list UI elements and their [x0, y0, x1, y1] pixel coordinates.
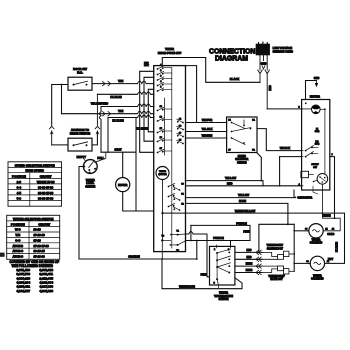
wire advance switch right: [92, 135, 97, 145]
svg-text:TAN: TAN: [118, 79, 123, 83]
timer right riser a: [190, 225, 192, 240]
svg-text:13-18: 13-18: [34, 228, 42, 232]
svg-text:21: 21: [325, 228, 328, 230]
svg-text:4,244,023: 4,244,023: [40, 289, 54, 293]
svg-text:WH: WH: [15, 233, 20, 237]
svg-text:PINK: PINK: [201, 274, 207, 277]
connector right pair: [95, 126, 100, 129]
svg-text:TAN: TAN: [118, 109, 123, 113]
svg-text:COLD: COLD: [327, 233, 334, 236]
timer motor: [156, 167, 169, 180]
svg-text:PINK: PINK: [243, 230, 249, 234]
wire pink: [186, 234, 210, 277]
timer right riser b: [196, 241, 198, 260]
motor box: [302, 100, 330, 191]
svg-text:LT. BLUE: LT. BLUE: [137, 127, 148, 131]
timer trunk wire 3: [148, 89, 153, 132]
svg-text:C-C: C-C: [15, 238, 20, 242]
svg-text:5-6: 5-6: [17, 196, 22, 200]
wire motor bottom: [123, 192, 154, 211]
wire tan 2: [62, 113, 154, 115]
svg-text:BLK: BLK: [144, 65, 149, 67]
motor speed switch: [305, 150, 307, 152]
svg-text:BLUE DOT: BLUE DOT: [270, 278, 283, 281]
svg-text:CAPACITOR: CAPACITOR: [297, 197, 312, 200]
svg-text:POSITION: POSITION: [12, 174, 26, 178]
timer box: [154, 66, 186, 252]
wire wh-brn: [186, 137, 227, 139]
motor start switch circle: [317, 174, 328, 185]
svg-text:W-C: W-C: [15, 228, 21, 232]
wire cold feed riser: [259, 224, 294, 252]
svg-text:CIRCUIT: CIRCUIT: [38, 222, 50, 226]
svg-text:68-69 67-68: 68-69 67-68: [38, 196, 54, 200]
svg-text:30: 30: [306, 261, 309, 263]
svg-text:WHITE-YELLOW: WHITE-YELLOW: [235, 209, 256, 213]
svg-text:GRAY: GRAY: [114, 147, 122, 151]
label CAPACITOR: [295, 197, 297, 199]
wire red t2: [235, 258, 262, 260]
svg-text:32: 32: [181, 204, 184, 206]
line voltage service cord plug: [256, 44, 269, 55]
svg-text:SW: SW: [313, 167, 317, 169]
svg-text:ORANGE DOT: ORANGE DOT: [267, 247, 284, 250]
wire yellow upper: [186, 181, 264, 186]
table speed selector switch: [8, 162, 62, 206]
svg-text:67: 67: [228, 150, 231, 152]
svg-text:FULL: FULL: [97, 156, 104, 160]
svg-text:TIMER: TIMER: [159, 171, 166, 173]
svg-text:ATCH-C: ATCH-C: [13, 249, 24, 253]
svg-text:LT. BLUE: LT. BLUE: [110, 95, 121, 99]
plug ground pin wire GRD: [263, 55, 265, 61]
ground GRD above motor: [306, 81, 317, 100]
svg-text:SPM: SPM: [315, 144, 320, 146]
wire yel-blk: [186, 131, 227, 133]
plug right pin wire red: [266, 55, 268, 70]
svg-text:63: 63: [179, 132, 182, 134]
svg-text:68-69 67-69: 68-69 67-69: [38, 191, 54, 195]
wire red to motor: [267, 108, 301, 110]
svg-text:2: 2: [160, 70, 162, 72]
svg-text:MOTOR: MOTOR: [310, 95, 320, 99]
wire full riser: [100, 107, 102, 153]
svg-text:WHITE: WHITE: [322, 214, 330, 217]
svg-text:DIAGRAM: DIAGRAM: [215, 56, 248, 63]
capacitor wire: [322, 184, 340, 231]
svg-text:21: 21: [327, 261, 330, 263]
wire orange: [79, 258, 197, 260]
timer trunk wire 2: [144, 77, 154, 141]
svg-text:RED: RED: [246, 256, 251, 259]
svg-text:17-16-18: 17-16-18: [34, 233, 46, 237]
svg-text:PURPLE: PURPLE: [236, 221, 247, 225]
svg-text:6A: 6A: [252, 118, 255, 121]
wire red t1: [235, 251, 262, 253]
timer contacts middle: [157, 110, 159, 112]
svg-text:17-18: 17-18: [34, 238, 42, 242]
svg-text:2: 2: [298, 106, 300, 108]
hot water solenoid: [310, 256, 324, 270]
svg-text:GRD: GRD: [314, 77, 320, 80]
svg-text:SWITCH: SWITCH: [237, 161, 247, 164]
svg-text:17-16-17-18: 17-16-17-18: [34, 244, 50, 248]
svg-text:64: 64: [179, 138, 182, 141]
svg-text:WH-PUR: WH-PUR: [202, 119, 212, 122]
svg-text:13-18-15: 13-18-15: [34, 249, 46, 253]
svg-text:2: 2: [89, 172, 90, 174]
wire door switch branch: [61, 85, 63, 114]
svg-text:RED: RED: [227, 181, 233, 185]
svg-text:YELLOW-RED: YELLOW-RED: [91, 102, 109, 106]
svg-text:T0: T0: [162, 236, 165, 238]
svg-text:SPEED SELECTOR SWITCH: SPEED SELECTOR SWITCH: [15, 164, 55, 168]
motor start relay box: [301, 171, 309, 177]
svg-text:C: C: [213, 283, 215, 285]
timer inner bus 1: [171, 68, 173, 248]
svg-text:LT. BLUE: LT. BLUE: [112, 119, 123, 123]
svg-text:SOLENOID: SOLENOID: [311, 278, 324, 281]
timer right outer riser: [186, 66, 197, 123]
svg-text:5A: 5A: [252, 149, 255, 152]
svg-text:WATER SELECTOR SWITCH: WATER SELECTOR SWITCH: [13, 217, 53, 221]
svg-text:SERVICE CORD: SERVICE CORD: [273, 50, 293, 54]
svg-text:CONNECTION: CONNECTION: [209, 48, 255, 55]
wire black from timer top to plug: [162, 58, 205, 66]
svg-text:GRD: GRD: [261, 62, 267, 66]
wire T0 riser: [161, 240, 163, 259]
svg-text:POSITION: POSITION: [11, 222, 25, 226]
svg-text:30: 30: [181, 184, 184, 186]
svg-text:4,214,717: 4,214,717: [17, 289, 31, 293]
wire water level left: [79, 167, 83, 260]
svg-text:ORANGE: ORANGE: [128, 254, 140, 258]
svg-text:ATCH-B: ATCH-B: [13, 244, 24, 248]
water temperature switch box: [210, 246, 235, 285]
svg-text:SOLENOID: SOLENOID: [310, 242, 323, 245]
table water selector switch: [7, 215, 60, 259]
motor inner right bus: [320, 108, 325, 110]
wire hot stub: [294, 262, 310, 264]
wire wh-pur: [186, 122, 227, 124]
wire riser to motor3: [280, 156, 302, 158]
motor protector: [312, 105, 321, 114]
wire yellow capacitor: [186, 197, 295, 199]
timer trunk wire 1: [140, 71, 154, 152]
svg-text:2-3: 2-3: [17, 180, 22, 184]
svg-text:WHITE-BLUE: WHITE-BLUE: [179, 285, 195, 288]
svg-text:BLUE: BLUE: [239, 199, 246, 203]
thermostat blue dot: [262, 265, 278, 267]
svg-text:HIGH SPEED: HIGH SPEED: [25, 169, 44, 173]
svg-text:WH-BK 67-68: WH-BK 67-68: [37, 180, 55, 184]
svg-text:CIRCUIT: CIRCUIT: [40, 174, 52, 178]
wire loop right: [135, 118, 137, 212]
svg-text:SWITCH: SWITCH: [85, 186, 95, 189]
wire lt blue 1: [97, 93, 153, 95]
wire loop top lt blue: [108, 117, 154, 119]
svg-text:BLUE: BLUE: [246, 263, 253, 266]
wire motor right riser: [330, 157, 335, 219]
svg-text:4: 4: [160, 80, 162, 83]
svg-text:START: START: [311, 163, 319, 166]
wire full riser 2: [95, 152, 106, 162]
timer contacts upper: [157, 68, 159, 70]
wire solenoid riser: [293, 224, 295, 271]
svg-text:68-69 67-69: 68-69 67-69: [38, 185, 54, 189]
svg-text:1: 1: [214, 249, 216, 251]
timer inner bus 2: [164, 98, 166, 155]
wire white-blue: [162, 259, 242, 289]
speed selector switch: [227, 117, 257, 153]
svg-text:30: 30: [305, 228, 308, 230]
svg-text:T1: T1: [176, 231, 179, 233]
svg-text:N.O.: N.O.: [77, 71, 83, 75]
svg-text:BLUE: BLUE: [246, 269, 253, 272]
svg-text:64: 64: [228, 118, 231, 121]
svg-text:ATCH-C: ATCH-C: [13, 255, 24, 259]
svg-text:RED: RED: [269, 85, 272, 90]
svg-text:EMPTY: EMPTY: [77, 155, 86, 159]
wire gray: [101, 151, 136, 153]
svg-text:MOTOR: MOTOR: [158, 174, 167, 176]
wire blue: [186, 203, 288, 224]
wire loop left: [107, 118, 109, 153]
svg-text:WH-BRN: WH-BRN: [202, 134, 213, 137]
water temperature switch contacts: [216, 252, 218, 254]
wire door switch left: [52, 85, 68, 126]
wire yellow-red: [101, 106, 154, 108]
motor terminals: [300, 108, 303, 110]
svg-text:21: 21: [332, 228, 335, 230]
svg-text:61: 61: [179, 118, 182, 120]
svg-text:SPM: SPM: [315, 131, 320, 133]
svg-text:YEL-BLK: YEL-BLK: [202, 128, 213, 131]
svg-text:YELLOW: YELLOW: [225, 176, 237, 180]
svg-text:3-4: 3-4: [17, 185, 22, 189]
timer contacts right upper: [182, 122, 184, 124]
hot terminal tick: [333, 262, 336, 264]
wire wh-blk: [257, 129, 302, 151]
motor M1: [122, 152, 124, 177]
wire purple 1: [191, 225, 250, 240]
wire white-yellow: [163, 213, 345, 263]
svg-text:3: 3: [160, 76, 162, 78]
svg-text:BLACK: BLACK: [230, 77, 239, 81]
svg-text:RED: RED: [246, 249, 251, 252]
svg-text:1: 1: [331, 154, 333, 156]
wire tan 1: [92, 83, 154, 85]
svg-text:MOTOR: MOTOR: [118, 184, 127, 187]
svg-text:PURPLE: PURPLE: [213, 236, 224, 240]
svg-text:YELLOW: YELLOW: [238, 193, 250, 197]
svg-text:4-5: 4-5: [17, 191, 22, 195]
wire purple 2: [186, 240, 251, 242]
plug left pin wire black: [259, 55, 261, 70]
wire to advance switch: [52, 144, 68, 146]
svg-text:31: 31: [181, 194, 184, 196]
timer contacts lower: [168, 186, 170, 188]
svg-text:RINSE SWITCH: RINSE SWITCH: [70, 132, 90, 136]
svg-text:17-18-89: 17-18-89: [34, 255, 46, 259]
scan mark: [0, 253, 5, 257]
wire cold stub: [294, 230, 309, 232]
wire red to motor4: [186, 185, 302, 187]
connector left pair: [49, 126, 54, 129]
svg-text:KNOB-PUSH OFF: KNOB-PUSH OFF: [158, 51, 182, 55]
water temperature switch bottom wire: [217, 279, 219, 289]
svg-text:62: 62: [179, 125, 182, 127]
wire speed box to yellow: [257, 153, 261, 181]
svg-text:LINE VOLTAGE: LINE VOLTAGE: [273, 46, 293, 50]
svg-text:5: 5: [160, 87, 162, 89]
cold water solenoid: [309, 224, 323, 238]
svg-text:SWITCH: SWITCH: [219, 298, 229, 301]
wire blue t2: [235, 272, 262, 274]
svg-text:LT. BLUE: LT. BLUE: [337, 242, 339, 252]
svg-text:WH-BLK: WH-BLK: [280, 147, 290, 150]
wire blue t1: [235, 265, 262, 267]
